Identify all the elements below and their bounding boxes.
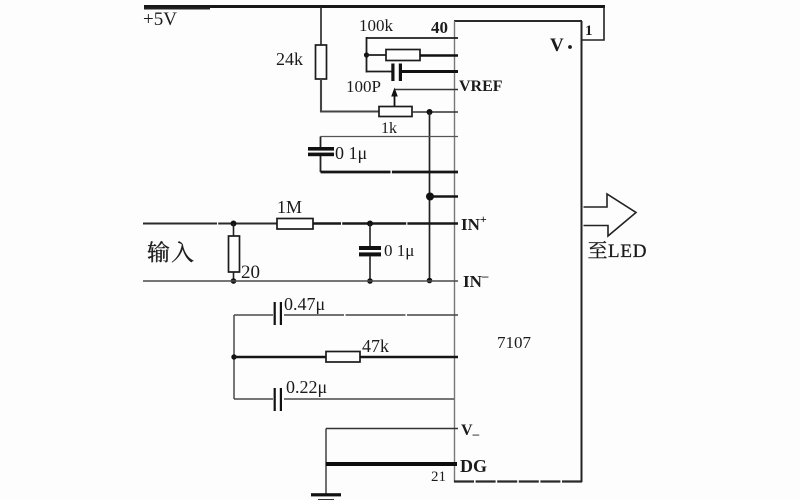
svg-text:0 1μ: 0 1μ [384,241,414,260]
svg-text:0 1μ: 0 1μ [335,143,367,163]
wire ref rail top [321,136,459,138]
svg-text:IN–: IN– [463,268,489,291]
junction IN+ at C 0.1u [367,221,373,227]
+5V supply rail wire [144,7,605,9]
capacitor 0.1u input [359,224,414,282]
wire integrator left vertical [233,315,235,399]
wire common to IC [430,195,458,198]
svg-text:20: 20 [241,262,260,283]
svg-text:40: 40 [431,18,448,37]
svg-text:1k: 1k [381,120,397,137]
svg-text:100P: 100P [346,77,381,96]
junction IN+ at R20 [231,221,237,227]
wire 24k to potentiometer left [321,79,379,112]
wire V- [326,428,458,430]
wire oscillator pin 40 [367,37,459,39]
svg-text:V: V [550,35,564,56]
svg-text:7107: 7107 [497,333,532,352]
input label (Chinese) [148,241,194,262]
svg-text:24k: 24k [276,49,303,69]
svg-text:1M: 1M [277,197,302,217]
wire ref rail bottom [321,171,459,174]
capacitor 0.22u [234,377,454,411]
svg-text:LED: LED [608,241,647,262]
resistor 1M [277,197,313,229]
svg-text:VREF: VREF [459,78,503,95]
wire 100P to IC [402,70,458,73]
resistor 47k [234,336,458,362]
junction common pin [426,193,434,201]
svg-text:100k: 100k [359,16,394,35]
junction common at IN- [427,278,433,284]
arrow to LED display [584,194,637,236]
wire DG (thick) [326,462,457,466]
resistor 100k [359,16,458,61]
wire +5V rail down to IC pin 1 [582,7,604,41]
svg-text:IN+: IN+ [461,212,487,234]
potentiometer 1k body [379,107,412,138]
svg-text:V–: V– [461,422,480,441]
capacitor 0.1u ref [308,137,367,173]
svg-text:1: 1 [585,23,593,39]
junction IN- at C 0.1u [367,278,373,284]
svg-text:47k: 47k [362,336,389,356]
junction osc loop [364,52,369,57]
potentiometer wiper arrow [391,88,398,107]
wire pot right to IC [412,111,458,113]
resistor 24k [276,45,327,79]
capacitor 100P [346,64,402,97]
IC label V+ [550,35,572,56]
junction IN- at R20 [231,278,237,284]
svg-text:DG: DG [460,456,487,476]
svg-text:+5V: +5V [143,9,177,30]
label: to LED (Chinese zhi + LED) [588,241,647,262]
wire V- / DG vertical to ground [325,429,327,495]
capacitor 0.47u [234,294,458,325]
wire loop bottom to 100P [367,71,393,73]
wire from rail to 24k [320,7,322,47]
wire common vertical [429,112,431,281]
IC U1 7107 outline [454,21,582,482]
junction pot right [427,109,433,115]
wire wiper to VREF pin [395,89,459,91]
svg-text:21: 21 [431,469,446,485]
wire oscillator loop left [366,37,368,73]
ground [311,493,341,500]
svg-text:0.47μ: 0.47μ [284,294,325,314]
wire IN+ line [143,223,277,225]
svg-text:0.22μ: 0.22μ [286,377,327,397]
junction 47k [231,354,236,359]
wire IN- line [143,280,458,282]
resistor 20 [229,224,261,284]
